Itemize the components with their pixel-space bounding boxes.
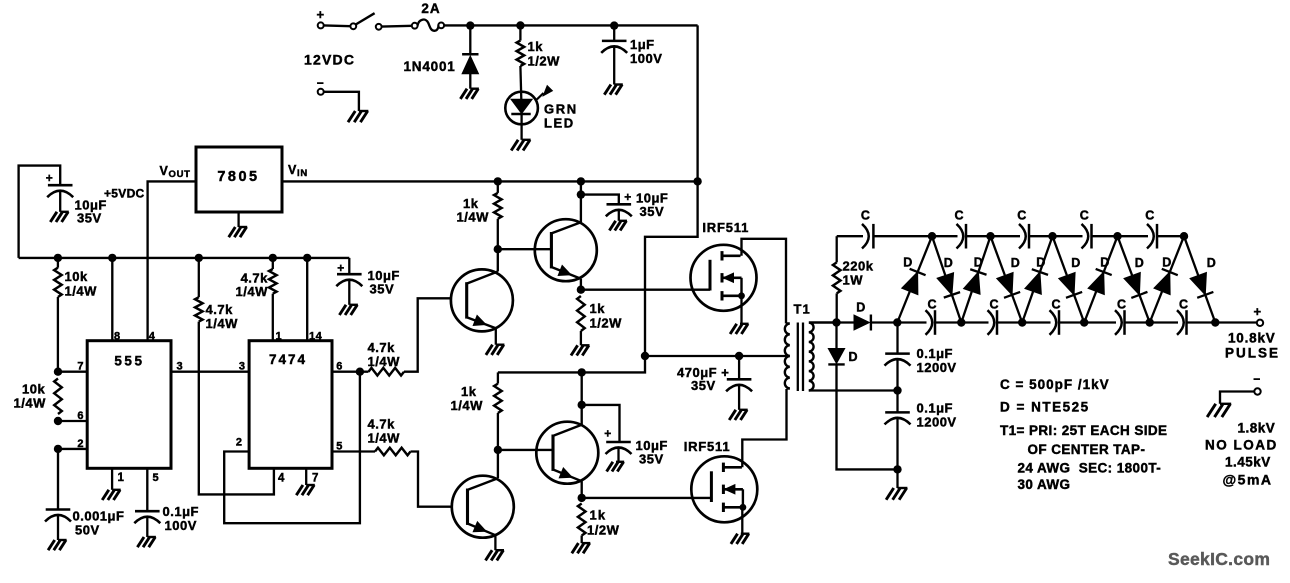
svg-text:1/4W: 1/4W	[368, 354, 401, 369]
wire bus to 555 pin8	[111, 258, 113, 341]
MOSFET Q6 IRF511 (lower)	[691, 456, 757, 522]
svg-text:0.1μF: 0.1μF	[917, 346, 953, 361]
label C (top row 3)	[1017, 209, 1027, 223]
svg-text:7: 7	[77, 361, 84, 373]
label C (bottom row 1)	[927, 298, 937, 312]
node lower rail / Q4 collector	[578, 368, 586, 376]
diode D (ladder 3 left)	[1022, 236, 1052, 322]
node shunt return	[893, 465, 901, 473]
ground 7805	[229, 212, 248, 237]
label 0.1uF 1200V (upper)	[917, 346, 957, 375]
svg-text:1.45kV: 1.45kV	[1225, 455, 1271, 470]
svg-text:+: +	[604, 427, 612, 441]
svg-text:4: 4	[149, 331, 156, 343]
label 1k 1/2W (upper gate)	[590, 301, 623, 331]
label D (ladder 4 right)	[1135, 256, 1145, 270]
node + output terminal 10.8kV	[1253, 304, 1263, 326]
svg-text:D: D	[1162, 256, 1172, 270]
label D (ladder 3 left)	[1036, 256, 1046, 270]
label C (bottom row 2)	[989, 298, 999, 312]
svg-text:V: V	[160, 164, 169, 178]
svg-text:SeekIC.com: SeekIC.com	[1168, 549, 1270, 569]
capacitor C (top row 1)	[862, 224, 873, 249]
label 1.8kV NO LOAD 1.45kV @5mA	[1205, 421, 1278, 488]
svg-text:1k: 1k	[590, 508, 607, 523]
label D (ladder 5 right)	[1207, 256, 1217, 270]
wire IRF511 upper drain to T1 top	[742, 239, 787, 324]
svg-text:3: 3	[239, 361, 246, 373]
capacitor C (top row 4)	[1082, 224, 1092, 249]
label +5VDC	[104, 187, 145, 201]
node VIN rail / 1k	[494, 177, 502, 185]
node pin7/10k	[54, 368, 62, 376]
node junction 1k LED branch	[516, 21, 524, 29]
capacitor 1uF 100V	[601, 28, 627, 85]
node multiplier bottom 6	[1211, 318, 1219, 326]
ground 1k 1/2W upper	[571, 345, 590, 355]
node bus/4.7k	[195, 254, 203, 262]
label D (ladder 3 right)	[1071, 256, 1081, 270]
svg-text:OUT: OUT	[169, 169, 191, 180]
pin label 1	[118, 472, 125, 484]
svg-text:1k: 1k	[590, 301, 606, 316]
ground LED	[511, 140, 530, 151]
svg-text:12VDC: 12VDC	[304, 52, 355, 68]
label 10uF 35V (input filter)	[75, 198, 107, 226]
svg-text:4.7k: 4.7k	[206, 302, 234, 317]
label 10uF 35V (lower driver)	[636, 438, 668, 467]
resistor 4.7k 1/4W (to 7474 pin4)	[195, 258, 274, 495]
resistor 1k 1/2W (upper gate)	[577, 296, 585, 345]
node multiplier bottom 1	[893, 318, 901, 326]
diode D (ladder 4 left)	[1084, 236, 1117, 322]
resistor 1k 1/4W (Q2 base)	[494, 181, 502, 249]
capacitor 0.1uF 1200V (upper)	[885, 323, 911, 391]
ground 0.001uF	[48, 540, 67, 550]
node bus/4.7k pin1	[269, 254, 277, 262]
label IRF511 lower	[684, 439, 731, 454]
wire Q2 collector	[580, 181, 582, 222]
label 4.7k 1/4W (pin5)	[368, 417, 401, 446]
capacitor 0.1uF 100V	[134, 511, 160, 537]
svg-text:1/4W: 1/4W	[206, 316, 239, 331]
svg-text:+: +	[46, 171, 54, 185]
wire multiplier top row	[837, 235, 1184, 237]
node secondary top / 220k / D	[832, 318, 840, 326]
resistor 1k 1/4W (Q4 base)	[494, 372, 502, 450]
wire +12V supply to T1 center tap	[645, 181, 790, 356]
transformer T1 secondary	[809, 323, 837, 391]
label D (ladder 2 right)	[1011, 256, 1021, 270]
capacitor C (top row 3)	[1019, 224, 1029, 249]
svg-text:1/4W: 1/4W	[236, 284, 269, 299]
svg-text:1200V: 1200V	[917, 360, 957, 375]
label 220k 1W	[843, 259, 874, 288]
watermark SeekIC.com	[1168, 549, 1270, 569]
svg-text:@5mA: @5mA	[1223, 472, 1273, 488]
svg-text:8: 8	[114, 331, 121, 343]
capacitor 0.001uF 50V	[45, 510, 71, 541]
wire Q1 collector	[497, 249, 499, 271]
label 1k 1/4W (Q2 base)	[457, 196, 490, 225]
node multiplier top 3	[1048, 232, 1056, 240]
svg-text:+: +	[337, 261, 345, 275]
wire T1 secondary bottom	[809, 389, 898, 391]
wire Q4 collector	[581, 372, 583, 424]
pin label 4 (7474)	[278, 473, 285, 485]
svg-text:IN: IN	[297, 168, 308, 179]
svg-text:IRF511: IRF511	[684, 439, 731, 454]
pin 6 wire	[332, 371, 369, 373]
wire +5V bus	[19, 257, 350, 259]
ground multiplier	[886, 469, 907, 499]
svg-text:2: 2	[236, 437, 243, 449]
wire VIN rail	[282, 180, 698, 182]
svg-text:−: −	[317, 76, 325, 90]
svg-text:D: D	[1135, 256, 1145, 270]
svg-text:+5VDC: +5VDC	[104, 187, 145, 201]
svg-text:5: 5	[153, 472, 160, 484]
node Q2 base / Q1 collector	[494, 245, 502, 253]
svg-text:1/2W: 1/2W	[528, 54, 561, 69]
node + input terminal 12VDC	[316, 7, 324, 28]
label D (series)	[856, 301, 866, 315]
IC U2 7474 flip-flop	[249, 341, 332, 469]
wire Q1 emitter + ground	[486, 328, 505, 355]
svg-text:10k: 10k	[65, 269, 88, 284]
ground 470uF	[729, 410, 748, 420]
ground 10uF input filter	[50, 212, 69, 222]
node pin6/feedback	[356, 368, 364, 376]
node multiplier top 5	[1180, 232, 1188, 240]
pin label 2	[77, 438, 84, 450]
svg-text:C: C	[1017, 209, 1027, 223]
svg-text:NO LOAD: NO LOAD	[1205, 438, 1278, 453]
diode D (ladder 5 left)	[1150, 236, 1184, 322]
label 1k 1/4W (Q4 base)	[451, 384, 484, 413]
node pin2	[54, 445, 62, 453]
node multiplier bottom 3	[1018, 318, 1026, 326]
pin label 5	[153, 472, 160, 484]
diode D (ladder 1 left)	[897, 236, 932, 322]
svg-text:14: 14	[309, 331, 323, 343]
svg-text:1W: 1W	[843, 273, 864, 288]
label 30 AWG	[1018, 477, 1071, 492]
pin label 7	[77, 361, 84, 373]
diode D (ladder 4 right)	[1118, 236, 1150, 322]
svg-text:1/4W: 1/4W	[451, 398, 484, 413]
pin 5 wire	[332, 450, 375, 452]
svg-text:D: D	[1100, 256, 1110, 270]
capacitor C (top row 2)	[957, 224, 967, 249]
svg-text:35V: 35V	[691, 378, 716, 393]
svg-text:220k: 220k	[843, 259, 874, 274]
svg-text:2: 2	[77, 438, 84, 450]
svg-text:C: C	[1051, 298, 1061, 312]
svg-text:PULSE: PULSE	[1225, 346, 1280, 361]
label VIN	[288, 163, 308, 179]
diode D (ladder 1 right)	[932, 236, 961, 322]
transistor Q1 (upper phase NPN)	[451, 269, 513, 331]
svg-text:1/2W: 1/2W	[590, 316, 623, 331]
svg-text:T1: T1	[794, 302, 811, 317]
wire multiplier bottom row	[897, 321, 1257, 323]
label 1k 1/2W (LED)	[528, 39, 561, 69]
transformer T1 primary	[785, 324, 790, 389]
wire IRF511 lower drain to T1 bottom	[742, 389, 786, 467]
pin label 8	[114, 331, 121, 343]
svg-text:1k: 1k	[528, 39, 544, 54]
svg-text:D: D	[1071, 256, 1081, 270]
node multiplier top 2	[986, 232, 994, 240]
capacitor C (bottom row 1)	[926, 310, 936, 335]
node Q4 collector / 10uF	[578, 401, 586, 409]
label D = NTE525	[1000, 400, 1090, 415]
label 4.7k 1/4W (pin6)	[368, 340, 401, 369]
wire center-tap feed to lower rail	[498, 356, 645, 372]
label D (ladder 1 left)	[903, 256, 913, 270]
svg-text:1/2W: 1/2W	[587, 523, 620, 538]
svg-text:C = 500pF /1kV: C = 500pF /1kV	[1000, 377, 1110, 392]
ground - input	[348, 111, 368, 122]
svg-text:0.1μF: 0.1μF	[917, 401, 953, 416]
svg-text:C: C	[861, 209, 871, 223]
pin label 6 (7474)	[336, 361, 343, 373]
transistor Q2 (upper driver NPN)	[535, 219, 597, 281]
resistor 10k 1/4W (555 timing)	[54, 379, 62, 415]
pin label 4	[149, 331, 156, 343]
label D (ladder 2 left)	[974, 256, 984, 270]
pin label 5 (7474)	[336, 441, 343, 453]
node bus/7474 pin14	[303, 254, 311, 262]
resistor 220k 1W	[833, 236, 841, 322]
wire Q2 emitter	[580, 279, 582, 290]
svg-text:30 AWG: 30 AWG	[1018, 477, 1071, 492]
capacitor 10uF 35V (input filter)	[19, 166, 74, 258]
label C (top row 4)	[1080, 209, 1090, 223]
resistor 1k 1/2W (LED)	[517, 28, 525, 100]
capacitor 10uF 35V (5V bus)	[336, 258, 362, 305]
svg-text:D: D	[1036, 256, 1046, 270]
node Q2 emitter / gate	[577, 286, 585, 294]
capacitor C (bottom row 5)	[1177, 310, 1187, 335]
svg-text:1/4W: 1/4W	[457, 210, 490, 225]
svg-text:100V: 100V	[630, 51, 662, 66]
svg-text:+: +	[1253, 304, 1261, 319]
svg-text:GRN: GRN	[544, 102, 578, 117]
ground 0.1uF 100V	[137, 537, 156, 547]
wire +12V top rail	[444, 24, 698, 26]
label C = 500pF /1kV	[1000, 377, 1110, 392]
svg-text:D: D	[1207, 256, 1217, 270]
ground 10uF lower driver	[607, 462, 625, 472]
svg-text:7474: 7474	[269, 352, 307, 367]
svg-text:C: C	[927, 298, 937, 312]
diode 1N4001 (reverse protection)	[462, 28, 478, 89]
pin 2 wire	[58, 448, 87, 450]
svg-text:D: D	[944, 256, 954, 270]
svg-text:35V: 35V	[370, 282, 395, 297]
resistor 4.7k 1/4W (pin5 to Q3 base)	[375, 448, 451, 507]
label 24 AWG SEC: 1800T-	[1018, 461, 1162, 476]
label 4.7k 1/4W (pin4)	[206, 302, 239, 331]
diode D (ladder 2 left)	[961, 236, 990, 322]
ground 1N4001	[460, 89, 479, 99]
resistor 4.7k 1/4W (to 7474 pin1)	[269, 258, 277, 341]
node Q4 base / Q3 collector	[494, 446, 502, 454]
svg-text:35V: 35V	[639, 452, 664, 467]
pin label 7 (7474)	[312, 473, 319, 485]
svg-text:OF CENTER TAP-: OF CENTER TAP-	[1028, 442, 1146, 457]
svg-text:10k: 10k	[22, 382, 45, 397]
svg-text:1/4W: 1/4W	[368, 431, 401, 446]
label 12VDC	[304, 52, 355, 68]
node VIN rail / top feed	[693, 177, 701, 185]
svg-text:35V: 35V	[77, 211, 102, 226]
svg-text:24 AWG SEC: 1800T-: 24 AWG SEC: 1800T-	[1018, 461, 1162, 476]
wire Q3 emitter + ground	[486, 535, 505, 560]
node multiplier bottom 2	[957, 318, 965, 326]
svg-text:1: 1	[276, 331, 283, 343]
svg-text:+: +	[316, 7, 324, 22]
capacitor 10uF 35V (upper driver)	[581, 190, 632, 221]
label C (bottom row 5)	[1179, 298, 1189, 312]
svg-text:10.8kV: 10.8kV	[1228, 331, 1276, 346]
svg-text:6: 6	[77, 410, 84, 422]
label 1N4001	[404, 59, 456, 74]
svg-text:−: −	[1253, 372, 1261, 386]
capacitor 470uF 35V	[726, 356, 752, 410]
wire node to Q4 base	[498, 449, 553, 451]
node multiplier bottom 5	[1146, 318, 1154, 326]
wire VOUT to 555 pin4 (+5VDC)	[148, 181, 196, 340]
node 470uF	[735, 352, 743, 360]
node junction fuse/1N4001	[466, 21, 474, 29]
node Q4 emitter / gate	[578, 494, 586, 502]
label 10k 1/4W (555)	[14, 382, 47, 411]
node pin6/10k	[54, 417, 62, 425]
node junction 1uF branch	[610, 21, 618, 29]
ground 1k 1/2W lower	[572, 543, 591, 553]
wire + terminal to switch	[324, 24, 351, 27]
wire IRF511 upper source + ground	[730, 296, 749, 334]
wire Q2 emitter to IRF511 gate	[581, 289, 710, 291]
wire bus to 7474 pin14	[306, 258, 308, 341]
ground - output	[1207, 404, 1231, 417]
svg-text:+: +	[624, 190, 632, 204]
LED GRN	[505, 86, 552, 140]
pin label 14	[309, 331, 323, 343]
label C (top row 1)	[861, 209, 871, 223]
pin 7 wire	[58, 371, 87, 373]
pin 1 wire + ground	[102, 468, 121, 500]
fuse F1 2A	[412, 1, 444, 31]
ground 1uF	[604, 85, 623, 95]
label D (ladder 4 left)	[1100, 256, 1110, 270]
svg-text:IRF511: IRF511	[702, 220, 749, 235]
svg-text:D = NTE525: D = NTE525	[1000, 400, 1090, 415]
switch S1 (SPST)	[350, 13, 381, 30]
label GRN LED	[544, 102, 578, 131]
node multiplier bottom 4	[1080, 318, 1088, 326]
svg-text:4: 4	[278, 473, 285, 485]
svg-text:5: 5	[336, 441, 343, 453]
svg-text:C: C	[1080, 209, 1090, 223]
resistor 10k 1/4W (bus)	[54, 258, 62, 372]
svg-text:1/4W: 1/4W	[14, 396, 47, 411]
svg-text:1200V: 1200V	[917, 415, 957, 430]
node - output terminal	[1220, 372, 1261, 404]
svg-text:50V: 50V	[75, 523, 100, 538]
svg-text:4.7k: 4.7k	[368, 417, 396, 432]
wire IRF511 lower source + ground	[731, 507, 750, 544]
pin label 1 (7474)	[276, 331, 283, 343]
node - input terminal	[317, 76, 325, 95]
svg-text:7805: 7805	[217, 169, 259, 185]
pin label 2 (7474)	[236, 437, 243, 449]
svg-text:100V: 100V	[165, 518, 197, 533]
capacitor C (top row 5)	[1147, 224, 1157, 249]
svg-text:1N4001: 1N4001	[404, 59, 456, 74]
svg-text:1.8kV: 1.8kV	[1238, 421, 1276, 436]
svg-text:C: C	[954, 209, 964, 223]
node center-tap feed	[641, 352, 649, 360]
wire 555 pin3 to 7474 pin3	[171, 371, 249, 373]
svg-text:7: 7	[312, 473, 319, 485]
wire pin2 to 0.001uF	[57, 449, 59, 510]
label OF CENTER TAP-	[1028, 442, 1146, 457]
label C (top row 5)	[1145, 209, 1155, 223]
node VIN rail / Q2 collector	[577, 177, 585, 185]
transistor Q3 (lower phase NPN)	[452, 476, 514, 538]
ground 10uF 5V bus	[339, 305, 358, 315]
label C (bottom row 4)	[1117, 298, 1127, 312]
pin label 3 (555)	[177, 361, 184, 373]
svg-text:D: D	[856, 301, 866, 315]
capacitor 0.1uF 1200V (lower)	[885, 391, 911, 470]
MOSFET Q5 IRF511 (upper)	[691, 245, 757, 311]
label 10uF 35V (upper driver)	[636, 191, 668, 220]
label T1 = PRI: 25T EACH SIDE	[1000, 423, 1167, 438]
diode D (shunt across secondary)	[828, 323, 897, 470]
svg-text:C: C	[1117, 298, 1127, 312]
label VOUT	[160, 164, 191, 180]
transformer T1 core	[798, 323, 803, 392]
wire Q4 emitter to IRF511 gate	[582, 497, 712, 499]
wire top rail to VIN rail	[696, 25, 698, 181]
pin label 3 (7474)	[239, 361, 246, 373]
svg-text:555: 555	[114, 354, 144, 369]
capacitor C (bottom row 3)	[1050, 310, 1060, 335]
svg-text:0.1μF: 0.1μF	[163, 504, 199, 519]
label D (ladder 5 left)	[1162, 256, 1172, 270]
svg-text:C: C	[989, 298, 999, 312]
svg-text:1k: 1k	[461, 384, 477, 399]
node Q2 collector / 10uF	[577, 190, 585, 198]
svg-text:V: V	[288, 163, 297, 177]
node multiplier top 4	[1113, 232, 1121, 240]
wire pin2 feedback from pin6	[224, 372, 360, 524]
label 0.001uF 50V	[73, 509, 125, 538]
wire node to Q2 base	[498, 248, 552, 250]
svg-text:3: 3	[177, 361, 184, 373]
label C (top row 2)	[954, 209, 964, 223]
capacitor C (bottom row 2)	[988, 310, 998, 335]
wire Q3 collector	[497, 450, 499, 478]
label D (shunt)	[849, 350, 859, 364]
label T1	[794, 302, 811, 317]
diode D (series, after secondary)	[839, 315, 897, 331]
